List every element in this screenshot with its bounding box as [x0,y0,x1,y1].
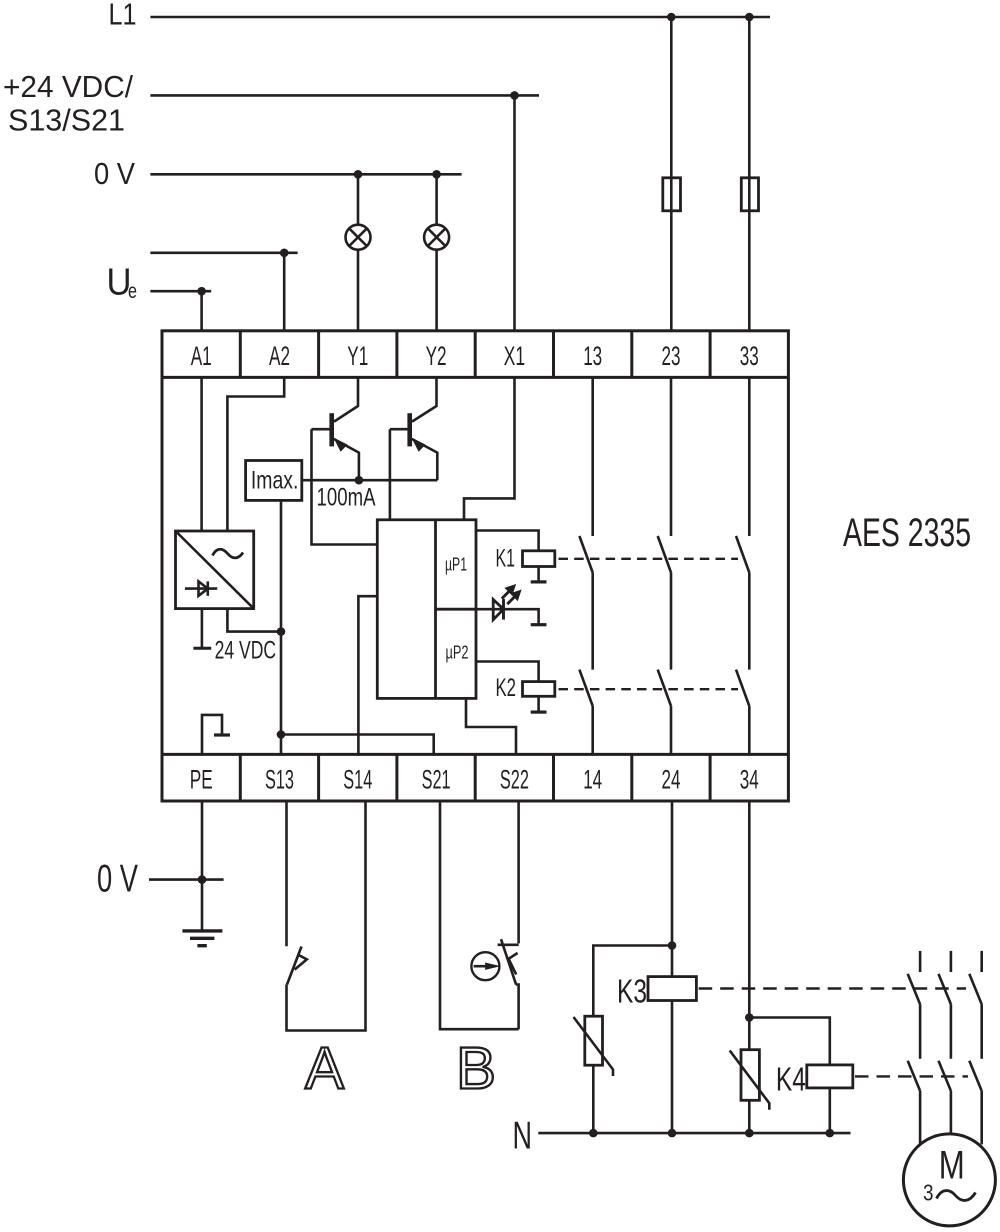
junction dot R1/N [589,1129,598,1138]
svg-text:A: A [305,1036,345,1102]
wire K4 coil to N [828,1088,831,1133]
junction dot 0V/Y2 [432,170,441,179]
wire K3 varistor branch [593,946,672,1017]
wire varistor R1 to N [592,1065,595,1133]
svg-text:K4: K4 [776,1061,806,1098]
contact K2.2 (23-24) [658,670,671,755]
dashed link K2 contacts [559,688,739,690]
svg-text:S13/S21: S13/S21 [8,103,125,138]
transistor Q2 (Y2 output) [390,377,437,519]
earth ground symbol [182,931,222,946]
contactor K4 main contacts [908,1061,982,1145]
contactor coil K3 [648,977,696,1001]
svg-text:Y1: Y1 [347,341,368,371]
wire A2 internal jog [227,377,284,531]
wire A1 drop [200,291,203,331]
svg-text:S22: S22 [500,765,529,795]
svg-text:23: 23 [662,341,681,371]
wire uP2 to K2 coil [476,662,539,682]
junction dot 34/K4 branch [745,1013,754,1022]
varistor R1 [574,1016,614,1076]
svg-text:A2: A2 [269,341,290,371]
varistor R2 [730,1050,770,1110]
junction dot PE/0V [198,875,207,884]
wire PE internal symbol [202,715,222,755]
contactor K3 main contacts [908,974,982,1059]
contactor coil K4 [807,1065,853,1088]
current limiter Imax box [246,461,302,501]
svg-text:K1: K1 [496,545,516,573]
wire S13 external [285,801,288,946]
wire S22 external [517,801,520,943]
wire 0V bus [150,173,461,176]
svg-text:24 VDC: 24 VDC [215,637,277,665]
dashed link K3 contacts [699,987,966,989]
node K2 ground bar [531,710,547,713]
wire S13-S21 internal link [281,735,434,755]
svg-text:A1: A1 [191,341,212,371]
junction dot L1/23 [667,13,676,22]
node LED ground bar [531,623,547,626]
svg-text:K3: K3 [617,973,647,1010]
top terminal dividers [240,331,710,378]
LED D1 [476,585,539,623]
actuator symbol (circle + arrow) [471,952,499,980]
svg-text:K2: K2 [496,674,517,702]
wire uP2 to S22 internal [466,698,516,754]
wire A1 internal [200,377,203,531]
fuse F2 (33) [741,178,758,211]
svg-text:34: 34 [740,765,759,795]
svg-text:Imax.: Imax. [251,467,299,495]
lamp H2 (Y2) [424,225,449,250]
wire X1 internal jog [464,377,515,519]
wire Y2 lamp lower [435,250,438,331]
wire 33 drop [748,17,751,331]
node minus bar [193,647,211,650]
svg-text:14: 14 [583,765,602,795]
wire PSU 24VDC output [227,609,281,632]
junction dot K4/N [826,1129,835,1138]
junction dot +24VDC/X1 [510,91,519,100]
microprocessor block U1 [377,520,476,699]
wire K1 coil to ground [537,567,540,581]
svg-text:100mA: 100mA [317,484,376,512]
svg-text:33: 33 [740,341,759,371]
svg-text:N: N [513,1114,533,1157]
wire K2 coil to ground [537,696,540,711]
svg-text:AES 2335: AES 2335 [843,511,971,555]
wire S21 external [440,801,519,1029]
contact K1.1 (13-14) [579,377,592,669]
junction dot 0V/Y1 [354,170,363,179]
junction dot 24/K3 branch [668,941,677,950]
wire L1 bus [150,16,770,19]
junction dot K3/N [668,1129,677,1138]
terminal row separators [162,377,788,754]
switch A (e-stop NC contact) [287,801,366,1031]
svg-text:L1: L1 [109,0,137,32]
wire K4 coil branch [749,1018,830,1065]
svg-text:e: e [128,280,137,303]
svg-text:0 V: 0 V [97,858,138,901]
contact K2.3 (33-34) [736,670,749,755]
dashed link K4 contacts [855,1075,968,1077]
wire 24 external [671,801,674,1133]
svg-text:µP2: µP2 [446,642,469,662]
svg-text:B: B [456,1036,496,1102]
svg-text:S21: S21 [422,765,451,795]
junction dot Ue/A1 [197,287,206,296]
node PE tick bar [214,733,230,736]
wire PE external [201,801,204,930]
switch B (position switch NC contact) [498,939,519,1029]
wire A2 stub bus [150,252,297,255]
wire Imax to transistor emitters (100mA rail) [302,479,438,482]
wire 34 external [748,801,751,1133]
wire 0V bottom stub [149,878,224,881]
wire +24VDC bus [150,94,539,97]
fuse F1 (23) [663,178,681,211]
svg-text:3: 3 [923,1180,934,1206]
contact K1.3 (33-34) [736,377,749,669]
transistor Q1 (Y1 output) [312,377,378,544]
lamp H1 (Y1) [346,225,371,250]
AES 2335 device outline [162,331,788,801]
wire Y2 lamp upper [435,174,438,224]
svg-text:PE: PE [190,765,213,795]
bottom terminal dividers [240,754,710,801]
wire S13 internal (Imax to terminal) [280,500,283,754]
relay coil K1 [523,551,555,567]
svg-text:µP1: µP1 [445,555,467,575]
svg-text:24: 24 [662,765,681,795]
wire PSU minus output [201,609,204,648]
power supply unit (AC/DC converter) [176,531,254,609]
wire X1 drop [513,95,516,330]
relay coil K2 [523,682,555,697]
junction dot A2 bus [280,249,289,258]
wire S14 internal [358,596,378,754]
motor M1 (3~) [903,1134,995,1226]
svg-text:S13: S13 [265,765,294,795]
svg-text:13: 13 [583,341,602,371]
svg-text:M: M [939,1144,965,1188]
junction dot S13/S21 link [277,730,286,739]
node K1 ground bar [531,580,547,583]
dashed link K1 contacts [559,558,739,560]
contact K2.1 (13-14) [579,670,592,755]
wire 23 drop [670,17,673,331]
svg-text:X1: X1 [504,341,526,371]
svg-text:+24 VDC/: +24 VDC/ [3,69,133,104]
svg-text:Y2: Y2 [426,341,447,371]
junction dot 34/N [745,1129,754,1138]
wire uP1 to K1 coil [476,531,539,551]
svg-text:0 V: 0 V [94,156,135,191]
svg-text:S14: S14 [343,765,372,795]
contact K1.2 (23-24) [658,377,671,669]
wire Y1 lamp lower [357,250,360,331]
wire Y1 lamp upper [357,174,360,224]
junction dot emitter Q1 [355,476,364,485]
wire A2 drop [283,253,286,331]
wire N bus [538,1132,850,1135]
junction dot L1/33 [745,13,754,22]
wire phase stubs to K3 contacts [920,951,982,972]
junction dot 24VDC/S13 [277,627,286,636]
wire Ue stub bus [150,290,211,293]
